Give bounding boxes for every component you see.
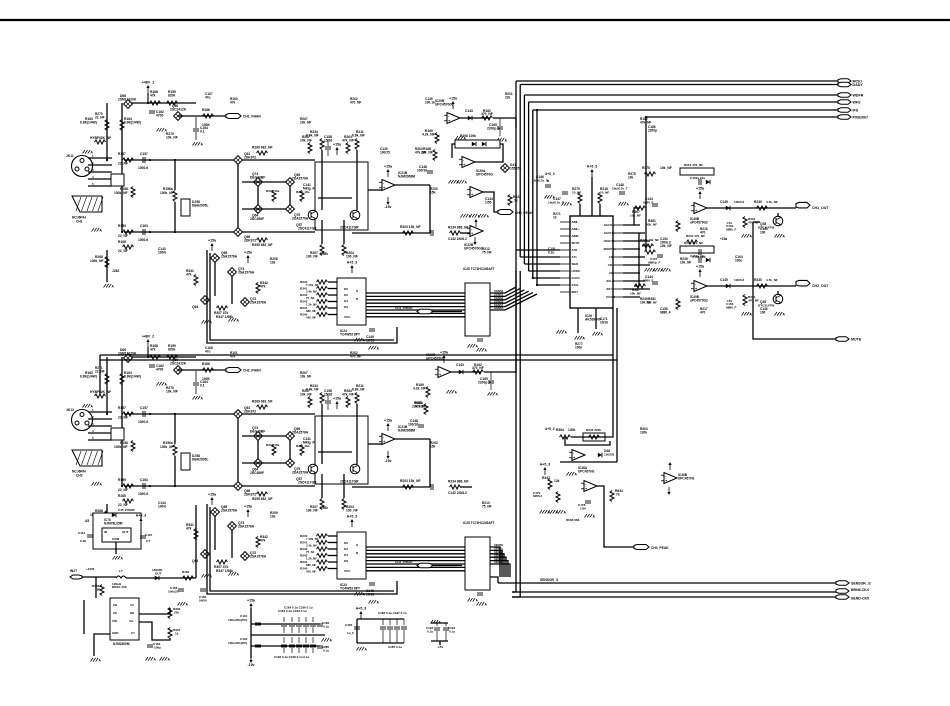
wire diff out ch1	[368, 189, 382, 191]
svg-text:HYBF02K_NF: HYBF02K_NF	[90, 136, 111, 140]
svg-text:WRT: WRT	[572, 290, 579, 294]
svg-text:1k: 1k	[175, 631, 179, 635]
wire bank1 rail top	[251, 623, 320, 625]
label IC20A	[476, 169, 493, 176]
pin number 3 ch2	[92, 422, 94, 426]
svg-text:4.2k_NF: 4.2k_NF	[413, 387, 426, 391]
label detail C154 9	[660, 237, 671, 244]
wire buffer out 2 ch1	[490, 290, 524, 300]
ground input rail ch1	[104, 284, 115, 289]
resistor R242 ch1	[300, 293, 328, 297]
diode D62 phantom	[118, 348, 137, 362]
wire XLR pin 2 ch2	[88, 418, 112, 420]
wire mux bus 6 ch1	[366, 312, 465, 314]
resistor R234b ch1	[448, 226, 469, 236]
ground mux ch1	[355, 338, 366, 343]
transistor Q75 ch2	[286, 459, 309, 475]
svg-text:NJM2068M: NJM2068M	[398, 428, 415, 432]
svg-text:A+5_3: A+5_3	[545, 172, 555, 176]
label C179	[533, 491, 543, 498]
wire mux bus 1 ch1	[366, 295, 465, 297]
value label R242 ch1	[306, 296, 315, 300]
svg-text:22_NF: 22_NF	[118, 416, 128, 420]
wire adc to peak	[571, 355, 613, 437]
wire bank2 rail bot	[357, 642, 404, 644]
wire ADC out 7	[623, 280, 645, 282]
wire XLR pin 1 ch2	[88, 411, 112, 413]
svg-text:CH2: CH2	[76, 474, 83, 478]
wire buffer out 5 ch2	[490, 564, 510, 577]
svg-text:75_NF: 75_NF	[306, 296, 315, 300]
svg-text:+15a: +15a	[244, 251, 252, 255]
svg-text:2.4k_NF: 2.4k_NF	[306, 544, 317, 548]
svg-text:TC4W53 8PT: TC4W53 8PT	[340, 586, 360, 590]
resistor R336a	[92, 584, 104, 596]
wire diff emitters2 ch2	[343, 474, 345, 498]
pin number 2 ch1	[92, 161, 94, 165]
capacitor C193 bottom	[303, 637, 309, 653]
ADC left pin CLKO	[560, 276, 580, 280]
net label SGNS3	[494, 299, 504, 303]
resistor R307 ch1	[214, 306, 228, 315]
svg-text:9880p_F: 9880p_F	[648, 260, 660, 264]
connector CH0_PEAK	[498, 210, 533, 216]
label detail R271 28	[95, 366, 105, 373]
junction dots rail top ch2	[106, 413, 239, 415]
wire R156b ch2	[174, 456, 176, 486]
wire ADC out 2	[623, 240, 650, 242]
transistor Q65 ch2	[211, 505, 238, 516]
wire digital bus net MCKI	[516, 80, 838, 82]
svg-text:2SC2412K: 2SC2412K	[170, 362, 187, 366]
pin number 2 ch2	[92, 415, 94, 419]
wire IC20A fb2	[475, 144, 503, 162]
wire buffer out 4 ch2	[490, 561, 508, 577]
resistor R347b	[542, 476, 560, 490]
svg-text:+15a: +15a	[696, 265, 704, 269]
svg-text:COM: COM	[112, 537, 120, 541]
label -15 ch1	[726, 221, 737, 231]
svg-text:155155: 155155	[510, 167, 521, 171]
wire ADC out 1	[623, 232, 645, 234]
resistor R268 ch1	[90, 255, 109, 268]
svg-text:R157: R157	[118, 152, 126, 156]
wire mux bus 4 ch2	[366, 560, 465, 562]
svg-text:S: S	[356, 543, 358, 547]
ground mid c	[661, 268, 672, 273]
diode C143 ch1	[465, 109, 473, 120]
ground C147	[562, 202, 573, 207]
resistor R159b ch2	[118, 478, 134, 492]
value label R240 ch2	[306, 537, 319, 541]
svg-text:100k: 100k	[575, 345, 582, 349]
wire fet col3 ch2	[289, 440, 291, 459]
svg-text:XTAL: XTAL	[572, 283, 580, 287]
ground sw b ch1	[229, 318, 240, 323]
ground peak a	[461, 214, 472, 219]
resistor R240 ch2	[300, 534, 328, 538]
svg-text:AINR-: AINR-	[572, 234, 580, 238]
ground input left ch2	[83, 404, 94, 409]
svg-text:uPC4570G2: uPC4570G2	[690, 220, 708, 224]
svg-text:WFS: WFS	[853, 101, 862, 105]
capacitor C1811 bank2	[401, 619, 407, 643]
ground C178	[585, 514, 596, 519]
power A+5 mux ch1	[347, 261, 358, 274]
svg-text:+15a: +15a	[720, 237, 727, 241]
wire signal rail top ch1	[124, 159, 315, 161]
connector CH1_PHAN	[226, 114, 261, 119]
label IC36B	[678, 473, 695, 480]
svg-text:100u: 100u	[735, 258, 742, 262]
capacitor C193	[443, 623, 455, 641]
capacitor C192	[426, 623, 440, 641]
wire XLR pin 5 ch1	[88, 185, 112, 187]
capacitor C148b	[612, 183, 628, 194]
svg-text:CT: CT	[131, 631, 135, 635]
svg-text:UPC4570G2: UPC4570G2	[464, 246, 483, 250]
wire bus to ADC pin DADY	[520, 256, 560, 258]
svg-text:R216 470_NF: R216 470_NF	[684, 163, 703, 167]
wire mux bus 3 ch1	[366, 302, 465, 304]
resistor R211 diff ch2	[352, 384, 365, 404]
svg-text:6.8K(1/4W): 6.8K(1/4W)	[124, 121, 141, 125]
wire feedback vertical ch1	[429, 185, 431, 233]
capacitor C163 ch2	[138, 478, 148, 496]
junction dots rail top ch1	[106, 159, 239, 161]
ADC left pin SIER	[560, 262, 578, 266]
svg-text:7.15k_NF: 7.15k_NF	[306, 537, 319, 541]
svg-text:+15a: +15a	[696, 187, 704, 191]
connector BRN6-CK4	[836, 588, 869, 593]
resistor R307 ch2	[214, 560, 228, 569]
diode D41	[501, 163, 522, 172]
wire buffer out 4 ch1	[490, 293, 533, 307]
wire peak out	[483, 192, 498, 212]
svg-text:SENS2: SENS2	[494, 550, 503, 554]
svg-text:0.1u: 0.1u	[427, 629, 433, 633]
wire signal rail top ch2	[124, 413, 315, 415]
svg-text:R206 100k: R206 100k	[460, 134, 476, 138]
svg-text:1.2k_NF: 1.2k_NF	[306, 303, 317, 307]
wire signal rail bottom ch1	[124, 231, 315, 233]
wire digital bus net WDFR	[524, 94, 838, 96]
wire adc to drv2	[634, 233, 639, 286]
label detail C144 30	[158, 501, 166, 508]
svg-text:R166: R166	[202, 108, 210, 112]
capacitor C144 ch2	[643, 275, 658, 284]
svg-text:R234 988_NF: R234 988_NF	[448, 480, 469, 484]
svg-text:15k: 15k	[430, 190, 436, 194]
label detail R375 8	[628, 172, 636, 179]
wire XLR pin 1 ch1	[88, 157, 112, 159]
svg-text:K6: K6	[344, 559, 348, 563]
op-amp IC21B ch2	[379, 434, 395, 445]
svg-text:BRN6-CK4: BRN6-CK4	[851, 588, 869, 592]
wire mux in 4 ch1	[328, 307, 337, 309]
svg-text:22_NF: 22_NF	[95, 115, 105, 119]
wire sw v1 ch2	[214, 516, 216, 550]
svg-text:C45 155065: C45 155065	[118, 508, 135, 512]
ADC left pin XTAL	[560, 283, 579, 287]
wire mux in 3 ch2	[328, 555, 337, 557]
svg-text:VIN: VIN	[112, 619, 117, 623]
capacitor C188 bank2	[380, 619, 386, 643]
wire buffer out 1 ch2	[490, 550, 502, 577]
resistor R225	[640, 238, 659, 248]
resistor R204 ch2	[342, 499, 358, 513]
ground IC25 ch1	[468, 344, 479, 349]
ground C165 ch1	[497, 138, 508, 143]
svg-text:DEG40BF: DEG40BF	[250, 176, 265, 180]
wire bias left2 ch2	[121, 357, 123, 486]
svg-text:R165: R165	[118, 494, 126, 498]
capacitor C149 ch2	[366, 583, 375, 597]
capacitor C101	[228, 614, 261, 625]
resistor R157 ch2	[118, 406, 134, 420]
connector MUTE	[836, 337, 862, 342]
capacitor C152 ch1	[690, 176, 710, 185]
svg-text:SGNS2: SGNS2	[494, 296, 504, 300]
svg-text:TC4W53 8PT: TC4W53 8PT	[340, 332, 360, 336]
ground sw c	[160, 657, 171, 662]
resistor R163 ch1	[80, 117, 109, 131]
label detail 1/98k 33	[320, 252, 328, 256]
capacitor C194 bottom	[310, 637, 316, 653]
ground input rail ch2	[104, 538, 115, 543]
svg-text:9880_F: 9880_F	[643, 201, 654, 205]
capacitor C160	[199, 589, 207, 602]
svg-text:C0: C0	[130, 603, 134, 607]
svg-text:CLKO: CLKO	[572, 276, 581, 280]
svg-text:R159: R159	[118, 478, 126, 482]
ground IC20B ch2	[447, 390, 458, 395]
wire mux in 4 ch2	[328, 561, 337, 563]
svg-text:10_NF: 10_NF	[600, 191, 609, 195]
svg-text:4.2k_NF: 4.2k_NF	[422, 133, 435, 137]
transistor Q69 ch1	[286, 173, 309, 186]
net label SENS4	[494, 557, 503, 561]
resistor R204 ch1	[342, 245, 358, 259]
capacitor C158 ch2	[324, 389, 332, 410]
svg-text:C112: C112	[78, 531, 85, 535]
svg-text:CB: CB	[113, 603, 117, 607]
svg-text:+15a: +15a	[333, 143, 341, 147]
svg-text:R347 1/98k: R347 1/98k	[216, 315, 233, 319]
label detail A+5_3 15	[545, 172, 555, 176]
capacitor C144 ch1	[643, 197, 658, 206]
wire fet col3 ch1	[289, 186, 291, 205]
label detail R264 0	[415, 147, 426, 154]
capacitor C150 ch2	[477, 593, 483, 595]
resistor R336	[168, 607, 181, 619]
svg-text:47k_NF: 47k_NF	[342, 139, 354, 143]
wire diff int2 ch2	[356, 404, 358, 464]
svg-text:47u: 47u	[205, 349, 211, 353]
svg-text:4.7k_NF: 4.7k_NF	[766, 278, 778, 282]
power +15 sw b ch2	[244, 505, 252, 518]
capacitor C192 bottom	[296, 637, 302, 653]
connector SENSOR_/2	[836, 581, 871, 586]
transistor Q60 ch1	[170, 104, 187, 120]
resistor R162c	[182, 570, 194, 580]
wire diff int1 ch1	[321, 150, 323, 210]
resistor R267 ch2	[300, 389, 312, 408]
capacitor C164 ch1	[193, 117, 208, 140]
connector CH2_OUT	[796, 280, 829, 288]
wire IC20A fb	[452, 144, 455, 158]
resistor R169 ch1	[422, 129, 439, 144]
svg-text:9880_F: 9880_F	[726, 227, 737, 231]
op-amp IC20B ch2	[435, 367, 451, 378]
label Q57 part ch2	[298, 481, 317, 485]
capacitor C163 ch1	[138, 224, 148, 242]
diode C145 ch2	[720, 278, 745, 288]
wire IC20B out ch2	[451, 371, 481, 373]
wire ADC gnd1	[577, 308, 579, 333]
wire mux bus 2 ch2	[366, 553, 465, 555]
wire XLR pin 3 ch1	[88, 171, 112, 173]
svg-text:JK11: JK11	[66, 154, 74, 158]
svg-text:6.9k_NF: 6.9k_NF	[306, 388, 319, 392]
svg-text:C143: C143	[465, 109, 473, 113]
ADC right pin HOGTR+	[604, 239, 623, 243]
svg-text:R269 682_NF: R269 682_NF	[252, 400, 273, 404]
connector J45 PXB2067	[838, 115, 868, 120]
capacitor C162 ch1	[149, 110, 164, 118]
label IC20B ch1	[435, 99, 454, 106]
capacitor C164b	[147, 642, 161, 649]
wire inter-channel down2	[616, 360, 618, 462]
wire ADC vcc	[591, 177, 593, 216]
svg-text:UPC4570G: UPC4570G	[578, 469, 595, 473]
wire sensor line1	[498, 582, 836, 584]
svg-text:10_NF: 10_NF	[572, 191, 581, 195]
ADC left pin WRT	[560, 290, 578, 294]
svg-text:47k_NF: 47k_NF	[415, 404, 426, 408]
pin number 1 ch1	[92, 154, 94, 158]
wire peak2 loop	[565, 437, 610, 445]
svg-text:CH2_P/BAR: CH2_P/BAR	[395, 560, 413, 564]
svg-text:22_NF: 22_NF	[118, 503, 128, 507]
label C142 ch1	[448, 237, 467, 241]
resistor R375 ch1	[642, 166, 672, 176]
wire mux in 1 ch2	[328, 542, 337, 544]
label R270 ch1	[166, 132, 178, 139]
label detail R209 32	[270, 511, 278, 518]
svg-text:R208 10a: R208 10a	[266, 443, 280, 447]
wire loop ch1 inner	[210, 253, 394, 340]
svg-text:470_NF: 470_NF	[350, 100, 361, 104]
label IC20B ch2	[426, 353, 445, 360]
ground peak2 c	[556, 510, 567, 515]
resistor R342 ch2	[256, 535, 268, 548]
label IC77	[113, 642, 130, 646]
wire bus to ADC pin WDFR	[524, 263, 560, 265]
resistor R161b	[167, 90, 178, 105]
wire bias left ch1	[106, 103, 108, 160]
connector SEND-CK5	[836, 595, 869, 601]
svg-text:10: 10	[553, 215, 557, 219]
attenuator box U51	[181, 199, 209, 216]
transistor Q73 ch2	[228, 521, 255, 530]
resistor R244 ch2	[300, 560, 328, 564]
ground at C164 ch2	[193, 396, 204, 401]
svg-text:680_NF: 680_NF	[306, 309, 316, 313]
wire phantom out ch2	[178, 369, 226, 371]
svg-text:OUT: OUT	[122, 530, 129, 534]
wire buffer out 0 ch2	[490, 547, 500, 577]
svg-text:2SA1576A: 2SA1576A	[221, 509, 238, 513]
svg-text:CIF: CIF	[608, 263, 613, 267]
capacitor C182 top	[296, 617, 302, 633]
svg-text:1k: 1k	[514, 199, 518, 203]
wire mux in 3 ch1	[328, 301, 337, 303]
capacitor C164 ch2	[193, 371, 208, 394]
value label R241 ch2	[306, 544, 317, 548]
svg-text:MFB.2: MFB.2	[533, 494, 543, 498]
connector J44 IFS	[838, 108, 859, 113]
svg-text:K2: K2	[344, 547, 348, 551]
resistor R269 ch2	[252, 400, 273, 410]
label IC21B ch2	[398, 425, 415, 432]
power +15 drv ch1	[696, 187, 704, 200]
svg-text:+15a: +15a	[384, 165, 392, 169]
ADC left pin AT1	[560, 255, 577, 259]
svg-text:-15v: -15v	[247, 663, 254, 667]
transistor Q72 ch2	[241, 551, 267, 560]
wire mux in 2 ch1	[328, 294, 337, 296]
wire sensor line2	[512, 591, 836, 593]
wire fb divider	[139, 608, 170, 614]
wire feedback horizontal ch2	[352, 486, 430, 488]
ground bank1	[322, 638, 333, 643]
wire mux in 5 ch2	[328, 568, 337, 570]
svg-text:CH2_OUT: CH2_OUT	[812, 284, 829, 288]
label R347 ch2	[216, 569, 233, 573]
svg-text:100k_NF: 100k_NF	[160, 191, 174, 195]
label detail 1/98k 34	[320, 506, 328, 510]
svg-text:A+5_3: A+5_3	[540, 463, 551, 467]
wire sensor bend1	[512, 591, 516, 593]
svg-text:190_NF: 190_NF	[306, 255, 318, 259]
label SENSOR /1	[540, 578, 559, 582]
value label R244 ch1	[306, 309, 316, 313]
svg-text:K4: K4	[344, 299, 348, 303]
svg-text:10u/6.3v_T: 10u/6.3v_T	[612, 187, 628, 191]
wire buffer out 1 ch1	[490, 288, 520, 296]
svg-text:100: 100	[760, 310, 766, 314]
wire XLR pin 3 ch2	[88, 425, 112, 427]
svg-text:10u/6.3v_T: 10u/6.3v_T	[548, 201, 564, 205]
svg-text:+48V_1: +48V_1	[142, 81, 154, 85]
svg-text:MOMTR+: MOMTR+	[604, 247, 617, 251]
connector IN2T	[70, 569, 82, 579]
wire mux bus 2 ch1	[366, 299, 465, 301]
svg-text:J282: J282	[112, 269, 120, 273]
ADC left pin AINR-	[560, 234, 579, 238]
svg-text:JK12: JK12	[66, 408, 74, 412]
label A5 in	[85, 519, 89, 523]
label detail +15a 13	[720, 237, 727, 241]
svg-text:100k_NF: 100k_NF	[90, 259, 104, 263]
resistor R162b ch2	[472, 363, 484, 374]
svg-text:OUT: OUT	[155, 571, 162, 575]
svg-text:NJM78L05M: NJM78L05M	[104, 521, 123, 525]
resistor R159b ch1	[118, 224, 134, 238]
svg-text:75_NF: 75_NF	[306, 550, 315, 554]
resistor R211 diff ch1	[352, 130, 365, 150]
